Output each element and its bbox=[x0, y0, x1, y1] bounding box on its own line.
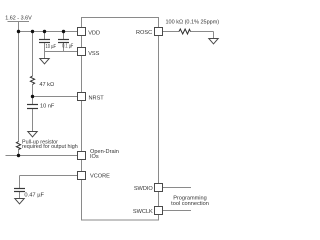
svg-text:ROSC: ROSC bbox=[136, 30, 152, 36]
svg-text:10 nF: 10 nF bbox=[40, 103, 55, 109]
svg-text:tool connection: tool connection bbox=[171, 201, 209, 207]
svg-text:10 µF: 10 µF bbox=[46, 44, 57, 50]
svg-text:1.62 - 3.6V: 1.62 - 3.6V bbox=[5, 16, 32, 22]
svg-text:VDD: VDD bbox=[88, 31, 100, 37]
svg-text:required for output high: required for output high bbox=[22, 144, 78, 150]
svg-text:47 kΩ: 47 kΩ bbox=[39, 82, 54, 88]
svg-text:0.1 µF: 0.1 µF bbox=[62, 44, 73, 50]
svg-text:SWDIO: SWDIO bbox=[134, 186, 154, 192]
svg-text:IOs: IOs bbox=[90, 154, 99, 160]
svg-text:NRST: NRST bbox=[89, 95, 105, 101]
svg-text:SWCLK: SWCLK bbox=[133, 209, 153, 215]
svg-text:VCORE: VCORE bbox=[90, 173, 110, 179]
svg-text:100 kΩ (0.1% 25ppm): 100 kΩ (0.1% 25ppm) bbox=[166, 20, 220, 26]
svg-text:VSS: VSS bbox=[88, 51, 99, 57]
svg-text:0.47 µF: 0.47 µF bbox=[24, 193, 44, 199]
